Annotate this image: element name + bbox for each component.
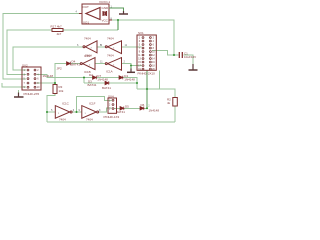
wire SV2 jog to diode row A [37, 74, 138, 89]
inverter T3 IC1A [105, 58, 121, 71]
header SV3 pins [142, 37, 151, 70]
junction VCC net [117, 19, 119, 21]
oscillator Q1 box [82, 4, 109, 24]
wire SV2 bottom left entry [2, 83, 26, 87]
diode D4 on T4 output [67, 62, 71, 66]
wire below R2 to bottom rail [174, 106, 176, 122]
wire net oscillator VCC to cap [109, 20, 174, 55]
resistor R3 vertical [53, 85, 57, 94]
wire feedback up and over to SV4 pin1 [77, 97, 112, 113]
wire T3 input to IC SV3 with jog [122, 64, 142, 66]
svg-text:D6: D6 [141, 103, 145, 107]
svg-text:10k: 10k [59, 89, 64, 93]
ground symbol top [119, 11, 128, 14]
junction SV3 ground node [130, 65, 132, 67]
wire SV2 pin to R3 junction [37, 82, 56, 84]
junction feedback tap [76, 111, 78, 113]
junction diode chain end [146, 107, 148, 109]
svg-text:BAT41: BAT41 [71, 63, 80, 67]
resistor R1 horizontal [52, 29, 63, 32]
svg-text:SV4: SV4 [108, 94, 114, 98]
svg-text:1N4148: 1N4148 [97, 77, 108, 81]
inverter T6 IC1F [82, 106, 99, 119]
wire below resistor R3 [47, 94, 55, 123]
header SV4 box [108, 98, 117, 113]
inverter T2 IC2B [105, 41, 121, 54]
svg-text:7404: 7404 [86, 118, 93, 122]
svg-text:PINHD-1X3: PINHD-1X3 [104, 115, 120, 119]
svg-text:SV1: SV1 [138, 31, 144, 35]
svg-text:D2: D2 [89, 73, 93, 77]
wire row B [84, 82, 137, 84]
big header SV3 box [137, 35, 156, 70]
svg-text:PINHD-2X10: PINHD-2X10 [138, 72, 156, 76]
diode D2 row A [93, 76, 97, 80]
svg-text:1N4148: 1N4148 [43, 74, 54, 78]
inverter T4 IC1B [80, 58, 95, 70]
wire T2 input to IC SV3 [122, 46, 142, 48]
wire T2 output to T1 input [97, 46, 105, 48]
wire IC SV3 pin down through junction to chain [146, 70, 148, 108]
wire T4 output to diode D4 [71, 63, 80, 65]
diode D1 row A second [119, 76, 123, 80]
svg-text:IC1F: IC1F [89, 102, 96, 106]
svg-text:7404: 7404 [84, 37, 91, 41]
junction row A/B right [136, 82, 138, 84]
inverter T5 IC1C [55, 106, 72, 119]
svg-text:XO1: XO1 [83, 21, 89, 25]
junction cap C1 node [173, 54, 175, 56]
svg-text:7404: 7404 [107, 54, 114, 58]
svg-text:BAT41: BAT41 [102, 86, 111, 90]
svg-text:4k7: 4k7 [57, 32, 62, 36]
wire T5 input [47, 111, 55, 113]
svg-text:7404: 7404 [85, 54, 92, 58]
wire junction drop on row A [83, 78, 85, 84]
svg-text:BAT41: BAT41 [88, 83, 97, 87]
ground bottom right [189, 64, 198, 70]
svg-text:10uF16V: 10uF16V [184, 55, 196, 59]
wire T6 out to SV4 pin3 [99, 108, 112, 112]
svg-text:R17 4k7: R17 4k7 [51, 24, 63, 28]
junction row A/B left [83, 77, 85, 79]
svg-text:1N4148: 1N4148 [149, 109, 160, 113]
svg-text:IC1A: IC1A [106, 70, 113, 74]
wire IC SV3 right pin to cap C1 [152, 51, 179, 55]
wire from R1 left to header SV2 [7, 30, 52, 74]
diode D3 row B [105, 81, 109, 85]
ground below-left of SV3 [130, 66, 132, 69]
wire T1 output to header SV2 [13, 47, 83, 70]
inverter T1 IC2C [83, 41, 97, 53]
pin stubs oscillator [79, 8, 112, 20]
svg-text:4k: 4k [167, 101, 171, 105]
wire T3 output to T4 input [95, 63, 105, 65]
header SV2 box [22, 67, 41, 90]
diode D6 chain [140, 107, 144, 111]
svg-text:VCC: VCC [102, 19, 109, 23]
wire IC SV3 pin short drop [159, 70, 161, 89]
header SV2 pins [27, 69, 36, 88]
junction R3 top [54, 82, 56, 84]
wire horizontal to R2 [137, 89, 175, 98]
svg-text:7404: 7404 [59, 118, 66, 122]
resistor R2 vertical bottom right [173, 98, 178, 107]
svg-text:BAT41: BAT41 [116, 110, 125, 114]
wire cap C1 to ground [184, 55, 194, 64]
wire pin1 of oscillator to ground [109, 8, 124, 11]
junction T5 input node [46, 111, 48, 113]
capacitor C1 electrolytic [179, 52, 182, 58]
pin marks inside gates [58, 48, 115, 115]
svg-text:OUT: OUT [83, 5, 90, 9]
wire T5 out to T6 in [72, 111, 82, 113]
wire net oscillator OUT left loop [3, 14, 79, 80]
diode D5 chain [120, 107, 124, 111]
svg-text:7404: 7404 [107, 37, 114, 41]
wire branch down from VCC wire to R1 [63, 29, 118, 31]
svg-text:GND: GND [102, 6, 110, 10]
wire SV4 to diode chain [114, 107, 147, 109]
ground below SV2 [18, 90, 20, 93]
junction R2 net [146, 88, 148, 90]
wire bottom rail [47, 121, 175, 123]
svg-text:VCXO-1: VCXO-1 [99, 0, 111, 4]
svg-text:1N4148: 1N4148 [124, 77, 135, 81]
svg-text:D5: D5 [125, 105, 129, 109]
svg-text:IC1C: IC1C [62, 102, 70, 106]
wire elbow into diode D4 row [55, 64, 66, 85]
svg-text:SV2: SV2 [22, 63, 28, 67]
svg-text:PINHD-2X5: PINHD-2X5 [24, 92, 40, 96]
svg-text:JP2: JP2 [57, 67, 63, 71]
